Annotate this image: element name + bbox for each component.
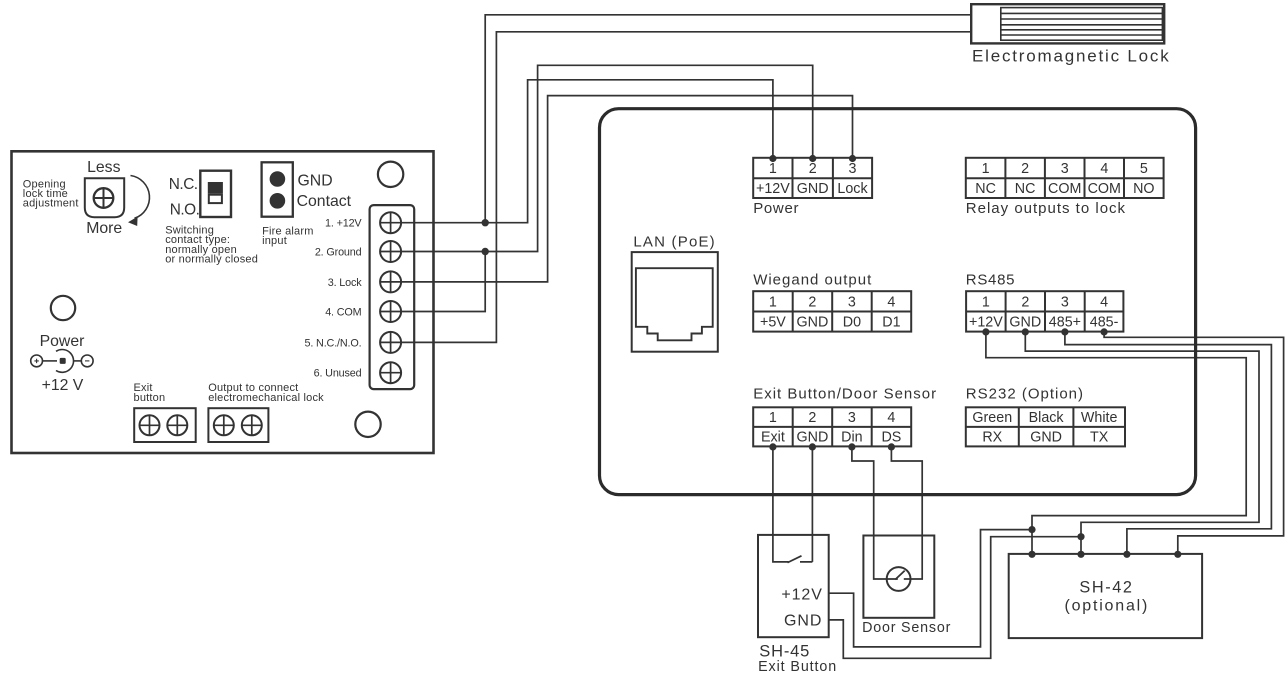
svg-text:GND: GND [1009,315,1041,331]
svg-text:TX: TX [1090,430,1109,446]
svg-text:Electromagnetic Lock: Electromagnetic Lock [972,47,1171,66]
svg-text:2: 2 [1021,161,1029,177]
svg-text:4. COM: 4. COM [325,307,361,319]
svg-text:485+: 485+ [1049,315,1081,331]
svg-text:D1: D1 [882,315,900,331]
svg-text:(optional): (optional) [1064,598,1149,615]
svg-text:4: 4 [1100,161,1108,177]
svg-text:+5V: +5V [760,315,786,331]
svg-text:1: 1 [769,410,777,426]
svg-text:6. Unused: 6. Unused [314,368,362,380]
svg-text:NC: NC [975,181,996,197]
svg-text:1: 1 [769,294,777,310]
svg-text:GND: GND [298,172,333,189]
svg-text:N.O.: N.O. [170,202,200,219]
svg-text:RS485: RS485 [966,272,1015,289]
svg-text:RX: RX [982,430,1002,446]
svg-text:485-: 485- [1090,315,1119,331]
svg-text:+12V: +12V [969,315,1003,331]
svg-text:1: 1 [982,161,990,177]
svg-text:3: 3 [848,410,856,426]
svg-text:LAN (PoE): LAN (PoE) [633,234,716,251]
svg-text:NO: NO [1133,181,1154,197]
svg-text:button: button [134,392,166,404]
svg-text:N.C.: N.C. [169,176,198,193]
svg-text:+12V: +12V [781,587,822,604]
svg-text:+12 V: +12 V [42,377,84,394]
svg-text:or normally closed: or normally closed [165,253,258,265]
svg-text:GND: GND [797,430,829,446]
svg-text:COM: COM [1048,181,1081,197]
svg-text:2: 2 [808,410,816,426]
svg-text:2. Ground: 2. Ground [315,247,362,259]
svg-text:Black: Black [1029,410,1065,426]
svg-text:GND: GND [797,315,829,331]
svg-text:D0: D0 [843,315,861,331]
svg-text:input: input [262,235,287,247]
svg-text:3. Lock: 3. Lock [328,277,363,289]
svg-text:3: 3 [849,161,857,177]
svg-text:4: 4 [1100,294,1108,310]
svg-text:5. N.C./N.O.: 5. N.C./N.O. [305,337,362,349]
svg-text:2: 2 [1021,294,1029,310]
svg-text:electromechanical lock: electromechanical lock [208,392,324,404]
svg-text:4: 4 [887,410,895,426]
svg-text:1: 1 [982,294,990,310]
svg-text:Less: Less [87,159,120,176]
svg-text:White: White [1081,410,1118,426]
svg-text:DS: DS [881,430,901,446]
svg-text:Power: Power [40,333,85,350]
svg-text:Exit Button/Door Sensor: Exit Button/Door Sensor [753,385,937,402]
svg-text:3: 3 [1061,294,1069,310]
svg-text:Door Sensor: Door Sensor [862,620,951,636]
svg-text:adjustment: adjustment [23,197,79,209]
svg-text:3: 3 [1061,161,1069,177]
svg-text:SH-42: SH-42 [1079,578,1133,596]
svg-text:1: 1 [769,161,777,177]
svg-text:RS232 (Option): RS232 (Option) [966,385,1084,402]
svg-text:4: 4 [887,294,895,310]
svg-text:Contact: Contact [297,193,352,210]
svg-text:5: 5 [1140,161,1148,177]
svg-text:Power: Power [753,200,799,217]
svg-text:3: 3 [848,294,856,310]
svg-text:Green: Green [972,410,1012,426]
svg-text:Din: Din [841,430,863,446]
svg-text:NC: NC [1015,181,1036,197]
svg-text:Exit: Exit [761,430,785,446]
svg-text:1. +12V: 1. +12V [325,218,362,230]
svg-text:COM: COM [1088,181,1121,197]
svg-text:GND: GND [1030,430,1062,446]
svg-text:Exit Button: Exit Button [758,659,837,674]
svg-text:Relay outputs to lock: Relay outputs to lock [966,200,1126,217]
svg-text:Wiegand output: Wiegand output [753,272,872,289]
svg-text:+12V: +12V [756,181,790,197]
svg-text:2: 2 [808,294,816,310]
svg-text:2: 2 [809,161,817,177]
svg-text:GND: GND [797,181,829,197]
svg-text:More: More [86,220,122,237]
svg-text:Lock: Lock [837,181,868,197]
svg-text:GND: GND [784,612,822,629]
